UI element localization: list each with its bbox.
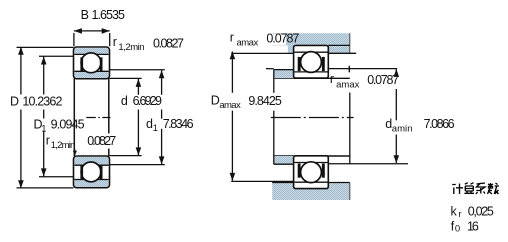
svg-text:0.0787: 0.0787 bbox=[266, 31, 299, 45]
dimension d1 extension lines bbox=[109, 69, 165, 71]
svg-text:0: 0 bbox=[455, 224, 460, 235]
leader arrow r1,2min (bottom) bbox=[74, 149, 76, 154]
groove shoulder bars bottom section (left fig) bbox=[80, 166, 83, 180]
svg-text:9.8425: 9.8425 bbox=[248, 94, 281, 108]
housing bottom right face line bbox=[349, 182, 351, 200]
raceway land lines bottom section (right fig) bbox=[295, 162, 328, 164]
svg-text:9.0945: 9.0945 bbox=[51, 118, 85, 132]
svg-text:0.0827: 0.0827 bbox=[153, 37, 184, 51]
dimension B extension lines bbox=[73, 33, 75, 46]
axis centerline (right fig) bbox=[271, 117, 354, 119]
svg-text:amax: amax bbox=[237, 37, 259, 48]
dimension D line bbox=[20, 47, 22, 95]
housing band top (right fig) bbox=[273, 33, 350, 45]
shaft shoulder bottom (right fig) bbox=[274, 156, 294, 164]
svg-text:r: r bbox=[46, 133, 50, 147]
ball of top section (left fig) bbox=[81, 53, 101, 73]
svg-text:16: 16 bbox=[467, 219, 479, 233]
svg-text:D: D bbox=[211, 94, 220, 108]
shaft seat line bottom (right fig) bbox=[274, 155, 350, 157]
housing band bottom top edges bbox=[272, 182, 293, 184]
housing shoulder right (right fig) bbox=[328, 45, 350, 53]
outer ring band bottom (left fig) bbox=[75, 180, 109, 187]
svg-text:0.0827: 0.0827 bbox=[87, 134, 116, 148]
dimension Da line bbox=[231, 52, 233, 93]
shaft seat line top (right fig) bbox=[274, 77, 350, 79]
groove shoulder bars bottom section (right fig) bbox=[298, 164, 301, 178]
shaft right end face line bbox=[349, 93, 351, 164]
svg-text:7.0866: 7.0866 bbox=[424, 117, 455, 131]
svg-text:amax: amax bbox=[219, 100, 241, 111]
svg-text:r: r bbox=[330, 72, 334, 86]
inner ring band of top section (left fig) bbox=[75, 71, 109, 77]
housing band bottom (right fig) bbox=[272, 182, 350, 200]
bearing side face lines (left fig) bbox=[73, 79, 75, 157]
svg-text:r: r bbox=[230, 31, 234, 45]
svg-text:1,2min: 1,2min bbox=[118, 42, 144, 53]
raceway land lines bottom section (left fig) bbox=[74, 164, 108, 166]
svg-text:6.6929: 6.6929 bbox=[133, 94, 162, 108]
dimension d1 line bbox=[161, 70, 163, 94]
char 数 bbox=[488, 183, 500, 194]
bearing bottom section outline (left fig) bbox=[74, 156, 110, 188]
svg-text:d: d bbox=[121, 94, 128, 108]
groove shoulder bars top section (right fig) bbox=[298, 57, 301, 71]
svg-text:r: r bbox=[458, 209, 461, 220]
svg-text:amax: amax bbox=[336, 80, 360, 91]
svg-text:amin: amin bbox=[392, 123, 413, 134]
ball of top section (right fig) bbox=[301, 52, 322, 73]
label r amax 0.0787 (top) bbox=[263, 34, 286, 45]
svg-text:r: r bbox=[113, 35, 117, 49]
r amax middle tick bbox=[348, 66, 350, 73]
svg-text:7.8346: 7.8346 bbox=[163, 117, 194, 131]
char 算 bbox=[465, 183, 475, 194]
ball of bottom section (right fig) bbox=[301, 162, 322, 183]
housing right face line bbox=[349, 33, 351, 53]
bearing top section outline (left fig) bbox=[74, 47, 110, 79]
svg-text:1.6535: 1.6535 bbox=[92, 8, 126, 22]
outer ring band top (left fig) bbox=[75, 48, 109, 54]
svg-text:k: k bbox=[451, 204, 458, 218]
shaft shoulder face line bbox=[273, 70, 275, 93]
housing bore line right of bearing bbox=[328, 44, 350, 46]
dimension B line bbox=[74, 30, 110, 32]
housing shoulder left (right fig) bbox=[288, 45, 294, 53]
dimension D extension lines bbox=[17, 46, 74, 48]
label r1,2min 0.0827 (bottom) bbox=[85, 134, 119, 149]
char 系 bbox=[476, 183, 485, 194]
axis centerline mark (left fig) bbox=[86, 117, 110, 119]
svg-text:1: 1 bbox=[153, 123, 158, 134]
dimension Da extension lines bbox=[231, 52, 293, 54]
svg-text:0,025: 0,025 bbox=[468, 204, 494, 218]
raceway land lines top section (right fig) bbox=[295, 51, 328, 53]
svg-text:B: B bbox=[81, 8, 89, 22]
dimension d_amin extension lines bbox=[266, 68, 274, 70]
bearing top section outline (right fig) bbox=[294, 45, 329, 78]
inner ring band of bottom section (left fig) bbox=[75, 157, 109, 165]
heading 计算系数 (drawn strokes) bbox=[452, 183, 499, 194]
dimension D1 line bbox=[43, 57, 45, 95]
raceway land lines top section (left fig) bbox=[74, 53, 108, 55]
svg-text:10.2362: 10.2362 bbox=[22, 95, 62, 109]
groove shoulder bars top section (left fig) bbox=[80, 57, 83, 71]
housing shoulder bottom edge right bbox=[328, 52, 356, 54]
dimension d_amin line bbox=[395, 69, 397, 75]
svg-text:1,2min: 1,2min bbox=[51, 140, 76, 151]
dimension d line bbox=[137, 79, 139, 95]
bearing bottom section outline (right fig) bbox=[294, 156, 329, 189]
dimension d extension lines bbox=[109, 77, 141, 79]
char 计 bbox=[452, 184, 463, 195]
ball of bottom section (left fig) bbox=[81, 162, 101, 182]
svg-text:D: D bbox=[10, 95, 19, 109]
dimension D1 extension lines bbox=[39, 55, 74, 57]
shaft shoulder top (right fig) bbox=[274, 70, 294, 79]
